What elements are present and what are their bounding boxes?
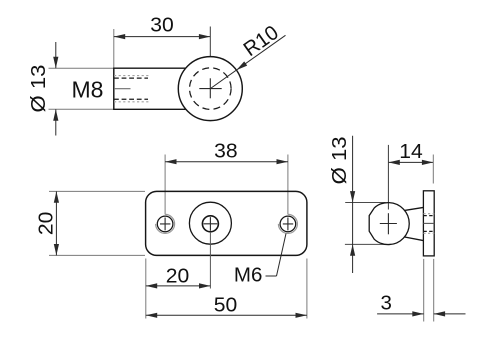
boss centerline vertical (387, 145, 389, 210)
svg-text:50: 50 (214, 294, 238, 317)
dim 38 extension line right (287, 155, 289, 215)
dim 50 dimension line (146, 314, 307, 316)
svg-text:38: 38 (214, 140, 238, 163)
svg-text:3: 3 (380, 291, 391, 314)
plate edge outline (423, 191, 434, 256)
svg-text:20: 20 (34, 212, 57, 236)
svg-text:20: 20 (166, 265, 190, 288)
center hole inner circle (202, 216, 218, 232)
M6 leader diagonal (277, 234, 287, 277)
dim 20 left dimension line (55, 191, 57, 255)
right hole thread arc (278, 214, 297, 233)
dim Ø13 right arrow up (350, 244, 355, 255)
svg-text:M6: M6 (234, 264, 262, 287)
dim 20 bottom arrow left (146, 283, 157, 288)
dim Ø13 right dimension line (352, 136, 354, 273)
dim 3 arrow left-pointing (434, 311, 445, 316)
plate edge thread line major top (light) (423, 213, 434, 215)
plate edge thread line minor bottom (dark) (423, 230, 434, 232)
dim 20 left extension line bottom (49, 254, 145, 256)
svg-text:Ø 13: Ø 13 (328, 136, 351, 184)
R10 arrowhead at arc (236, 61, 247, 70)
rod body outline (114, 68, 187, 109)
thread major dia line bottom (light) (114, 101, 151, 103)
center hole outer circle (189, 202, 231, 244)
dim 38 arrow left (165, 159, 176, 164)
right hole cross (283, 218, 293, 231)
dim Ø13 right extension line top (345, 202, 385, 204)
dim 20 bottom dimension line (146, 285, 211, 287)
dim 50 arrow right (296, 313, 307, 318)
dim 20 bottom arrow right (199, 283, 210, 288)
dim 3 dimension line right part (434, 313, 466, 315)
plate outline rounded rect (146, 191, 307, 255)
dim Ø13 right arrow down (350, 191, 355, 202)
dim Ø13 arrow down (53, 57, 58, 68)
svg-text:Ø 13: Ø 13 (27, 65, 50, 113)
M6 leader tail (266, 275, 277, 277)
svg-text:30: 30 (150, 14, 174, 37)
boss center cross vertical (387, 213, 389, 234)
dim Ø13 extension line top (49, 67, 114, 69)
dim Ø13 arrow up (53, 109, 58, 120)
boss outline (circle with flat) (369, 203, 409, 245)
dim 38 extension line left (164, 155, 166, 215)
left hole thread arc (156, 214, 175, 233)
thread major dia line top (light) (114, 75, 151, 77)
dim 30 extension line left (113, 29, 115, 68)
dim Ø13 dimension line lower (55, 109, 57, 135)
hidden rod circle dashed (190, 68, 232, 110)
dim 30 arrow right (199, 34, 210, 39)
dim 3 arrow right-pointing (412, 311, 423, 316)
head center cross horizontal (199, 88, 221, 90)
boss center cross horizontal (380, 223, 397, 225)
svg-text:M8: M8 (72, 77, 104, 103)
left hole circle (157, 216, 173, 232)
dim Ø13 dimension line upper (55, 42, 57, 68)
cone line bottom (405, 237, 424, 241)
cone line top (405, 207, 424, 210)
plate edge thread line major bottom (light) (423, 232, 434, 234)
svg-text:14: 14 (399, 140, 423, 163)
dim 14 arrow right (422, 160, 433, 165)
dim 50 arrow left (146, 313, 157, 318)
dim 3 extension line right (433, 259, 435, 322)
plate edge thread line minor top (dark) (423, 215, 434, 217)
dim 20 left arrow up (54, 191, 59, 202)
right hole circle (280, 216, 296, 232)
dim Ø13 extension line bottom (49, 108, 114, 110)
center hole extension line down (209, 232, 211, 289)
left hole cross (160, 218, 170, 231)
dim 3 extension line left (423, 259, 425, 322)
dim 38 dimension line (165, 161, 288, 163)
plate edge hole centerline (423, 222, 434, 224)
dim 14 extension line right (432, 155, 434, 184)
head vertical centerline (209, 27, 211, 75)
dim 14 arrow left (388, 160, 399, 165)
head outer circle R10 (178, 57, 242, 121)
dim 38 arrow right (277, 159, 288, 164)
thread minor dia line bottom (dark dashed) (114, 98, 148, 100)
plate right extension line down (306, 259, 308, 319)
plate left extension line down (145, 259, 147, 319)
center hole cross (204, 217, 218, 231)
dim 3 dimension line left part (377, 313, 424, 315)
M8 leader line (114, 88, 131, 90)
head center cross vertical (209, 78, 211, 98)
dim Ø13 right extension line bottom (345, 243, 391, 245)
dim 20 left arrow down (54, 244, 59, 255)
dim 20 left extension line top (49, 190, 145, 192)
dim 14 dimension line (388, 161, 433, 163)
dim 30 arrow left (114, 34, 125, 39)
thread minor dia line top (dark dashed) (114, 77, 148, 79)
dim 30 dimension line (114, 36, 211, 38)
R10 leader line (210, 35, 285, 88)
